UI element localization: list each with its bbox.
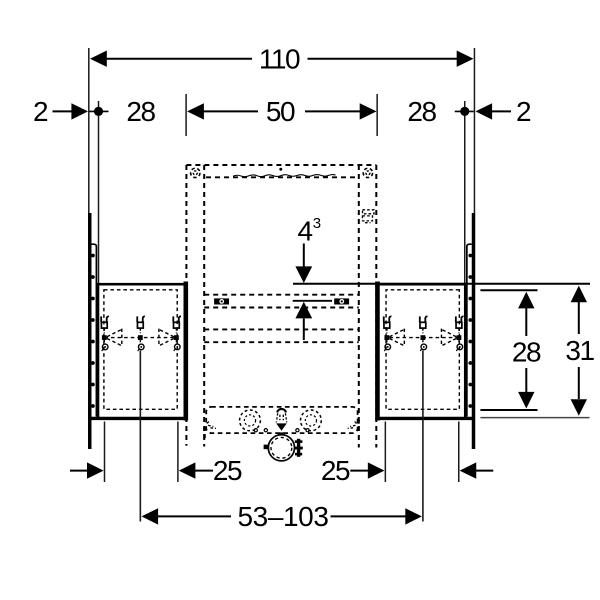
left wall and panel assembly <box>70 48 213 522</box>
dimension 2 right <box>476 103 512 119</box>
right panel fitting 1 <box>384 316 392 351</box>
dimension 31 vertical <box>571 286 587 416</box>
band clip right <box>348 422 357 429</box>
bottom flush band dashed <box>206 407 357 433</box>
screw head left <box>191 168 200 177</box>
svg-text:4: 4 <box>298 216 313 247</box>
4 dim upper arrow <box>295 244 312 284</box>
left panel fitting 2 <box>137 316 145 351</box>
flush bend inner dashes <box>280 415 283 421</box>
left panel fitting 1 <box>101 316 109 351</box>
rail bolt right <box>334 298 349 304</box>
frame inner dashed right <box>358 165 360 448</box>
svg-text:28: 28 <box>512 337 541 368</box>
pipe clamp outer ring <box>268 435 294 461</box>
flush bend funnel <box>276 423 287 430</box>
right panel fitting 2 <box>420 316 428 351</box>
svg-text:53–103: 53–103 <box>237 501 328 532</box>
flush bend sides <box>276 413 286 422</box>
frame outer dashed right <box>375 165 377 448</box>
rail bolt left <box>214 298 229 304</box>
clamp left tab <box>264 445 270 450</box>
band clip left <box>207 422 216 429</box>
pipe clamp inner dashed ring <box>271 437 292 458</box>
dimension 110 line <box>90 51 474 67</box>
svg-text:28: 28 <box>407 96 436 127</box>
crossbar rail dashed line 3 <box>204 328 359 330</box>
adjusted rail short line <box>293 300 332 302</box>
clamp bolt <box>294 439 302 457</box>
svg-text:28: 28 <box>126 96 155 127</box>
clip marks inner left rail bottom <box>203 427 206 438</box>
dimension 28 vertical <box>518 292 534 409</box>
band small circles <box>254 429 309 432</box>
sticker dot <box>279 168 282 171</box>
decorative wreath left <box>240 410 261 431</box>
svg-text:2: 2 <box>33 96 48 127</box>
clip marks inner right rail bottom <box>357 420 360 432</box>
dimension 50 line <box>187 103 376 119</box>
svg-text:25: 25 <box>213 455 242 486</box>
left panel fitting 3 <box>173 316 181 351</box>
svg-text:110: 110 <box>259 43 300 74</box>
clip on right inner rail <box>363 210 375 223</box>
reference line 28 bottom <box>480 409 537 411</box>
label sticker wavy line <box>233 175 336 177</box>
svg-text:31: 31 <box>565 335 594 366</box>
4 dim lower arrow <box>295 302 312 340</box>
right wall and panel assembly (mirrored) <box>350 48 493 522</box>
svg-text:3: 3 <box>313 215 321 232</box>
frame outer dashed left <box>185 165 187 446</box>
svg-text:25: 25 <box>321 455 350 486</box>
dimension 53-103 line <box>142 508 422 524</box>
svg-text:50: 50 <box>266 96 295 127</box>
right panel fitting 3 <box>456 316 464 351</box>
crossbar rail dashed line 4 <box>204 341 359 343</box>
frame inner dashed top rail <box>206 176 358 178</box>
screw head right <box>363 168 372 177</box>
flush bend neck <box>278 432 285 435</box>
decorative wreath right <box>301 410 322 431</box>
rail reference line <box>293 283 590 285</box>
svg-text:2: 2 <box>516 96 531 127</box>
frame inner dashed left <box>203 165 205 447</box>
reference line 31 bottom <box>480 417 589 419</box>
flush bend dome <box>277 409 286 412</box>
frame outer dashed top <box>186 164 376 166</box>
crossbar rail dashed line 1 <box>204 294 359 296</box>
reference line 28 top <box>480 289 537 291</box>
crossbar rail dashed line 2 <box>204 307 359 309</box>
dimension 2 left <box>53 103 89 119</box>
